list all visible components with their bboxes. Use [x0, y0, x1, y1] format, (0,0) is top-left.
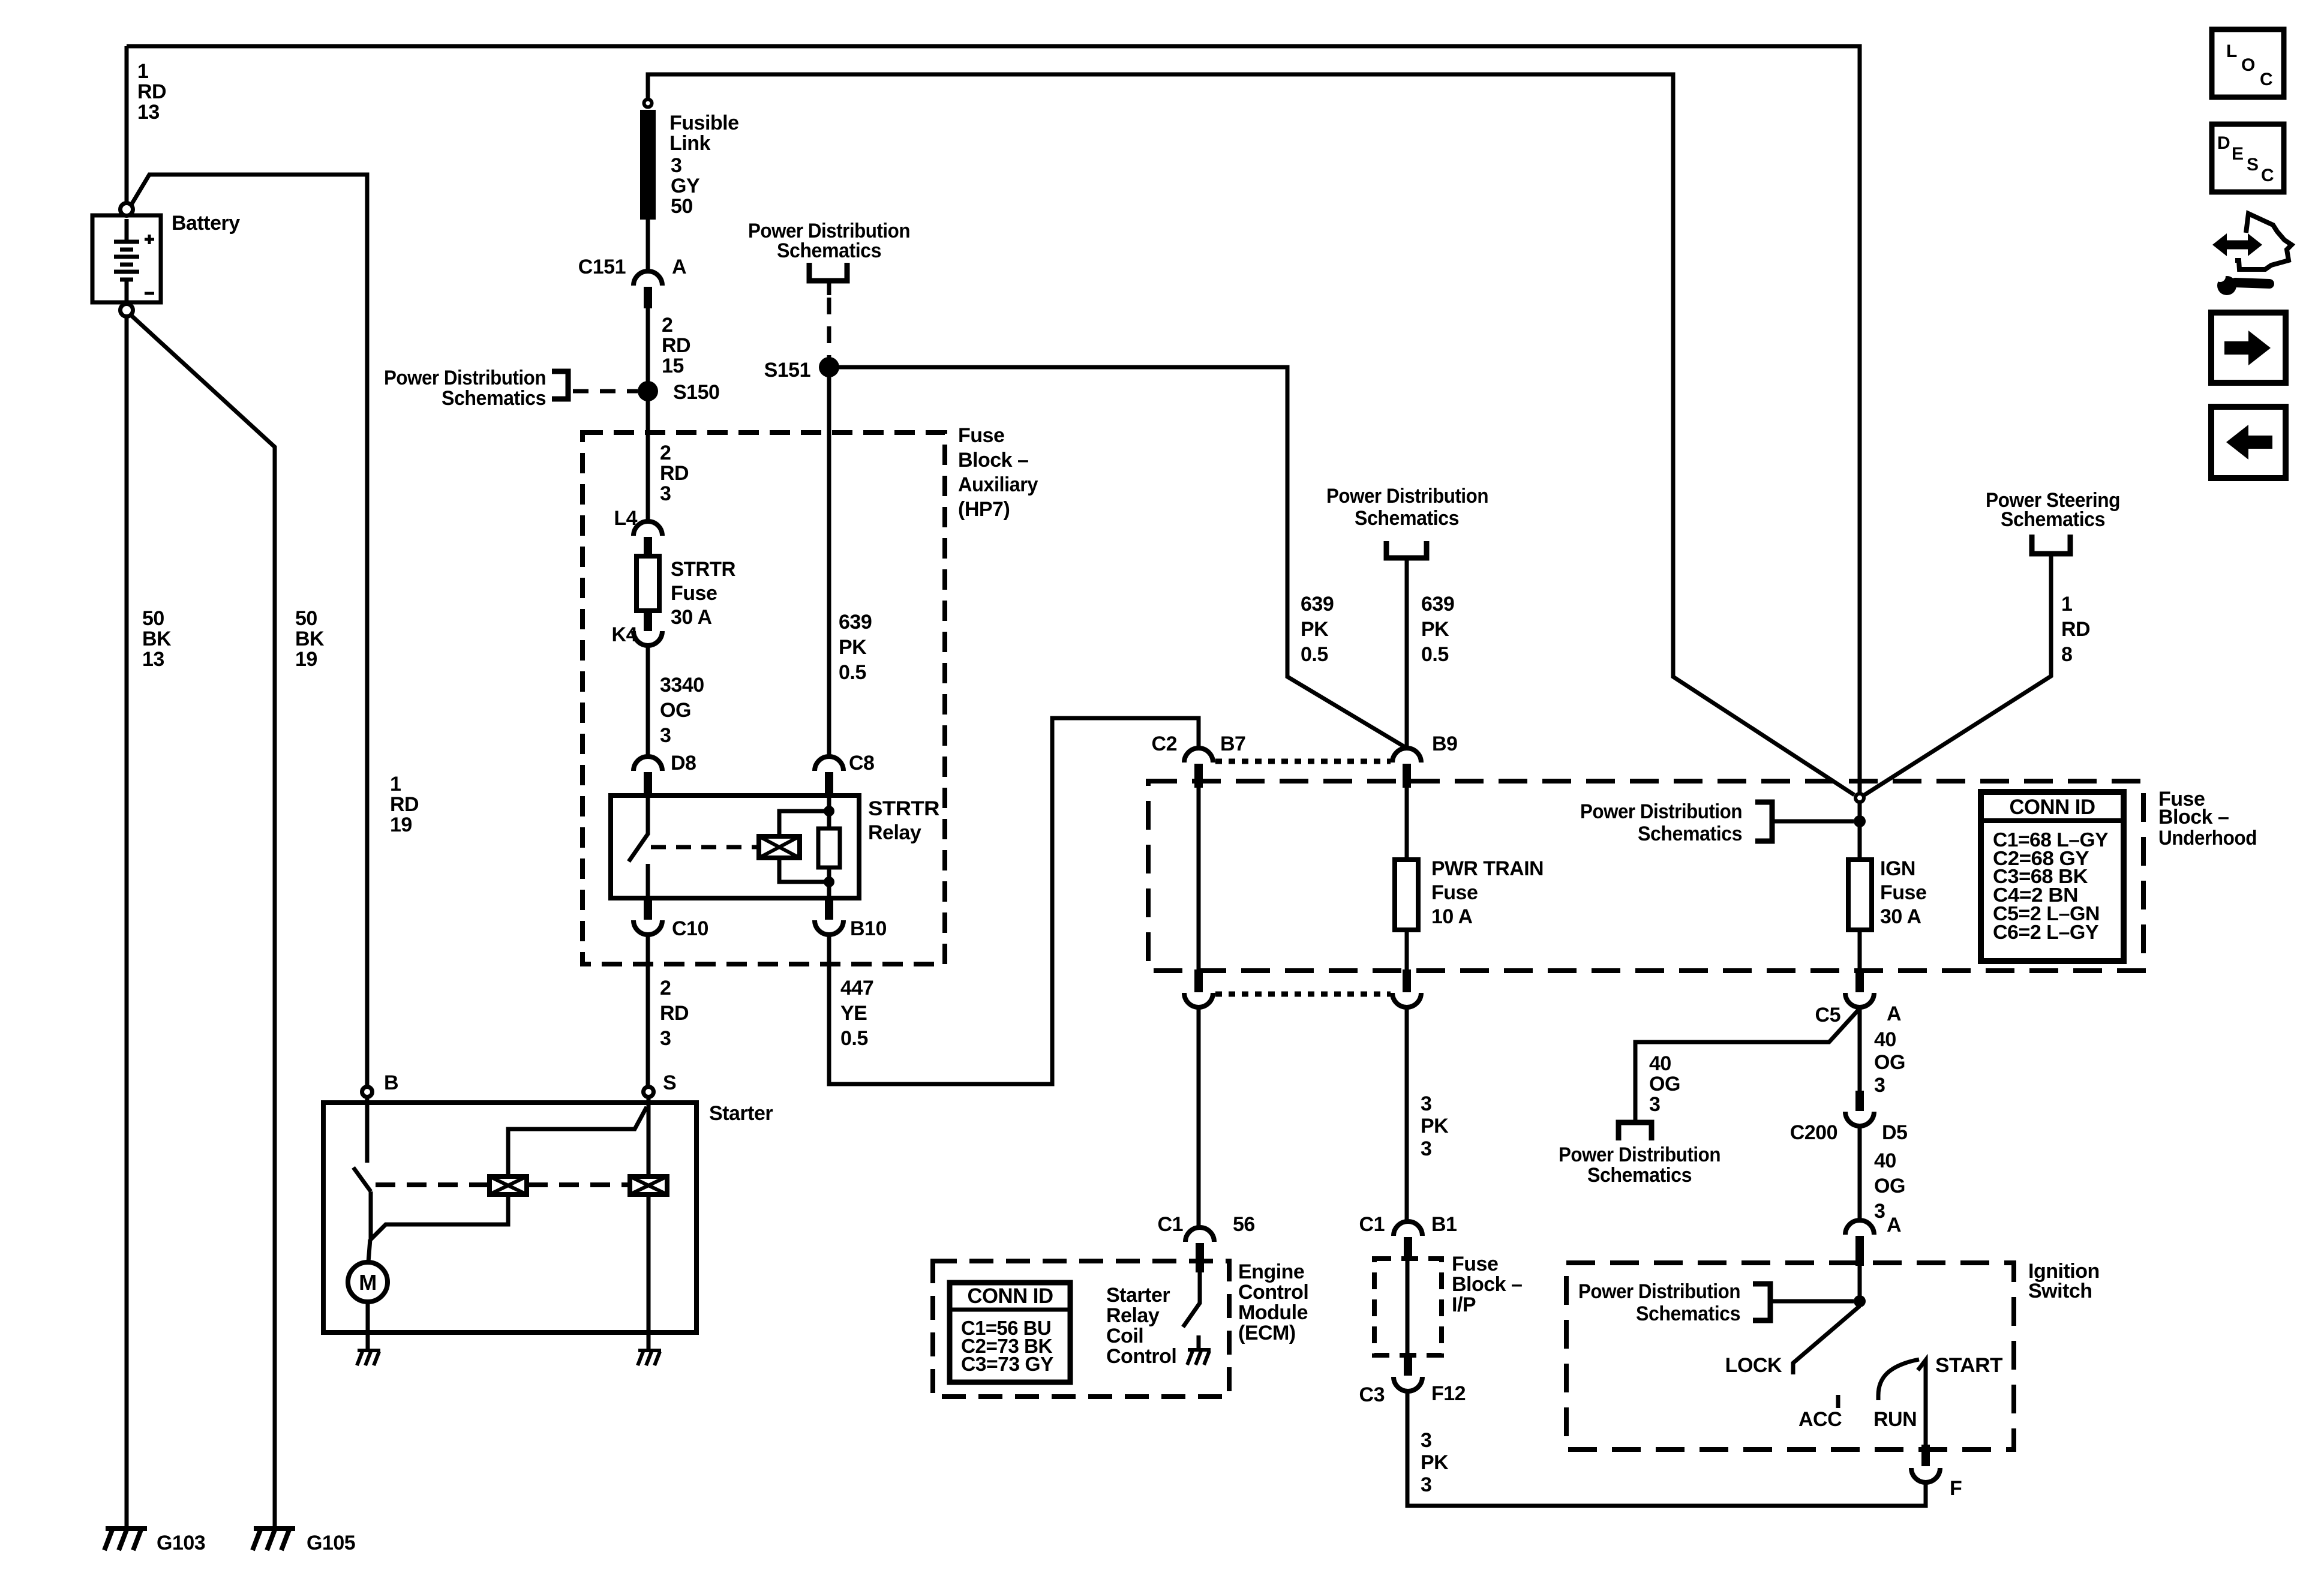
svg-text:15: 15: [662, 355, 684, 377]
connector C1 ECM: [1185, 1227, 1214, 1272]
fuse block IP dashed box: [1374, 1259, 1442, 1355]
svg-text:1: 1: [390, 773, 401, 795]
svg-text:OG: OG: [660, 699, 691, 722]
svg-text:30 A: 30 A: [1880, 905, 1921, 928]
connector C1 B1: [1394, 1221, 1422, 1260]
svg-text:639: 639: [1421, 593, 1454, 616]
fuse STRTR 30A: [636, 556, 659, 611]
svg-text:C1: C1: [1359, 1213, 1385, 1236]
svg-text:IGN: IGN: [1880, 857, 1915, 880]
svg-text:F: F: [1950, 1477, 1962, 1500]
svg-text:B: B: [384, 1071, 398, 1094]
wire 50 BK 13 battery negative to G103: [125, 317, 129, 1529]
svg-text:A: A: [672, 256, 686, 278]
svg-text:OG: OG: [1649, 1073, 1680, 1095]
connector A ignition switch: [1845, 1220, 1874, 1266]
battery plates: [114, 219, 139, 302]
svg-text:Power Distribution: Power Distribution: [1559, 1143, 1721, 1166]
svg-text:C8: C8: [849, 752, 874, 775]
fuse block auxiliary HP7 dashed box: [582, 433, 945, 964]
icon jump wrench: [2217, 276, 2236, 295]
svg-text:A: A: [1887, 1214, 1901, 1236]
wire 40 OG 3 C5 to C200: [1858, 1007, 1862, 1092]
svg-text:STRTR: STRTR: [868, 797, 939, 820]
CONN ID table ECM: [950, 1283, 1070, 1382]
svg-text:56: 56: [1233, 1213, 1255, 1236]
svg-text:Fuse: Fuse: [1431, 881, 1478, 904]
svg-text:PK: PK: [1421, 1451, 1449, 1474]
svg-text:S150: S150: [673, 381, 719, 404]
starter terminal B: [362, 1087, 373, 1097]
svg-text:D: D: [2217, 133, 2230, 153]
svg-text:O: O: [2241, 55, 2255, 75]
wire 447 YE 0.5 B10 to fuse block underhood C2 B7: [829, 718, 1199, 1084]
wire 1 RD 19 battery positive to starter B: [131, 175, 367, 1085]
ignition switch RUN arc: [1878, 1359, 1919, 1400]
goes-to bracket for power distribution schematics above S151: [809, 263, 847, 281]
starter box: [323, 1103, 696, 1332]
goes-to bracket for power distribution schematics left of S150: [552, 371, 568, 399]
icon box right arrow: [2211, 313, 2286, 383]
battery positive terminal: [121, 203, 133, 216]
svg-text:OG: OG: [1874, 1051, 1905, 1074]
ground G103: [104, 1529, 147, 1550]
ECM dashed box: [933, 1261, 1229, 1397]
svg-text:YE: YE: [840, 1002, 867, 1025]
svg-text:B7: B7: [1220, 733, 1245, 755]
starter motor M: [348, 1262, 388, 1302]
svg-text:Control: Control: [1238, 1281, 1308, 1304]
svg-text:13: 13: [137, 101, 160, 124]
connector C10: [633, 898, 662, 935]
battery box: [92, 215, 161, 302]
wire fusible link top line 2 RD: [648, 74, 1854, 795]
svg-text:Power Distribution: Power Distribution: [384, 367, 546, 389]
svg-text:RD: RD: [390, 793, 419, 816]
svg-text:Schematics: Schematics: [442, 387, 546, 410]
svg-text:CONN ID: CONN ID: [968, 1284, 1053, 1308]
svg-text:639: 639: [1301, 593, 1334, 616]
svg-text:RD: RD: [660, 1002, 689, 1025]
wire C2 B7 to C3 E6 inside underhood block: [1197, 783, 1201, 971]
svg-text:Fuse: Fuse: [1452, 1253, 1498, 1275]
svg-text:13: 13: [142, 648, 164, 671]
splice S150: [638, 381, 658, 401]
relay coil: [759, 836, 800, 858]
svg-text:Schematics: Schematics: [1587, 1164, 1692, 1187]
svg-text:2: 2: [662, 314, 672, 337]
svg-text:L4: L4: [614, 507, 637, 530]
dotted pin line B7 to B9: [1215, 759, 1391, 764]
svg-text:Block –: Block –: [958, 449, 1028, 472]
svg-text:L: L: [2226, 41, 2237, 61]
wire 447 YE 0.35 E6 to ECM C1: [1197, 1007, 1201, 1227]
svg-text:3: 3: [1421, 1473, 1431, 1496]
connector C200 D5: [1845, 1091, 1874, 1126]
junction terminal circle at IGN feed: [1855, 794, 1864, 802]
CONN ID table underhood: [1981, 792, 2124, 961]
goes-to bracket power distribution below 40 OG 3 branch: [1619, 1122, 1652, 1140]
svg-text:3: 3: [1874, 1200, 1885, 1223]
svg-text:Block –: Block –: [1452, 1273, 1522, 1296]
svg-text:19: 19: [295, 648, 317, 671]
wire fusible link to C151: [646, 220, 650, 271]
wire IGN fuse to C5: [1858, 930, 1862, 971]
wire 2 RD 3 C10 to starter S: [646, 935, 650, 1085]
svg-text:Module: Module: [1238, 1301, 1308, 1324]
svg-text:K4: K4: [612, 623, 638, 646]
connector B10: [815, 898, 843, 935]
svg-text:C6=2 L–GY: C6=2 L–GY: [1993, 921, 2099, 943]
svg-text:D8: D8: [671, 752, 696, 775]
wire 2 RD 15 C151 to S150: [646, 308, 650, 382]
svg-text:PK: PK: [1421, 1115, 1449, 1137]
svg-text:3: 3: [660, 724, 671, 747]
svg-text:PK: PK: [1301, 618, 1329, 641]
starter motor feed tap: [371, 1194, 508, 1239]
junction dot ignition feed: [1854, 1295, 1866, 1307]
svg-text:40: 40: [1874, 1149, 1896, 1172]
svg-text:Schematics: Schematics: [777, 239, 881, 262]
svg-text:Starter: Starter: [709, 1102, 773, 1125]
ECM driver switch: [1183, 1272, 1200, 1350]
wire battery positive feed top line 1 RD 13: [127, 46, 1860, 793]
connector L4: [633, 521, 662, 557]
svg-text:0.5: 0.5: [1301, 643, 1328, 666]
connector C5: [1845, 969, 1874, 1007]
starter solenoid actuation dashed line: [376, 1182, 629, 1187]
svg-text:GY: GY: [671, 175, 700, 197]
wire 40 OG 3 branch C5 to power distribution: [1635, 1008, 1860, 1122]
svg-text:C10: C10: [672, 917, 708, 940]
svg-text:LOCK: LOCK: [1725, 1354, 1782, 1377]
svg-text:S: S: [663, 1071, 676, 1094]
svg-text:B9: B9: [1432, 733, 1457, 755]
starter motor wire: [368, 1231, 371, 1262]
svg-text:PWR TRAIN: PWR TRAIN: [1431, 857, 1544, 880]
wire 3 PK 3 F9 to fuse block IP B1: [1405, 1007, 1409, 1221]
svg-text:19: 19: [390, 813, 412, 836]
svg-text:C200: C200: [1790, 1121, 1837, 1144]
svg-text:RD: RD: [662, 334, 690, 357]
svg-text:Fusible: Fusible: [669, 112, 739, 134]
svg-text:S: S: [2247, 155, 2259, 175]
svg-text:C3=73 GY: C3=73 GY: [961, 1353, 1053, 1375]
icon jump outline: [2235, 214, 2292, 269]
svg-text:C151: C151: [578, 256, 626, 278]
svg-text:C2: C2: [1152, 733, 1177, 755]
svg-text:2: 2: [660, 442, 671, 464]
svg-text:3: 3: [1649, 1093, 1660, 1116]
svg-text:Relay: Relay: [868, 821, 921, 844]
svg-text:S151: S151: [764, 359, 810, 382]
ECM ground: [1187, 1350, 1211, 1365]
svg-text:ACC: ACC: [1798, 1408, 1842, 1431]
battery negative terminal: [121, 304, 133, 317]
icon box LOC: [2212, 29, 2284, 97]
svg-text:30 A: 30 A: [671, 606, 712, 629]
svg-text:0.5: 0.5: [840, 1027, 868, 1050]
svg-text:8: 8: [2061, 643, 2072, 666]
connector B9: [1392, 748, 1421, 788]
dotted pin line E6 to F9: [1215, 992, 1391, 997]
wire S151 branch horizontal to B9: [838, 367, 1407, 748]
connector C3 F12: [1394, 1355, 1422, 1391]
starter motor ground wire: [368, 1098, 648, 1350]
pointer bracket power distribution schematics in ignition switch: [1753, 1284, 1770, 1320]
svg-text:PK: PK: [1421, 618, 1449, 641]
relay box STRTR Relay: [611, 795, 859, 898]
starter solenoid coil 1: [490, 1176, 527, 1194]
svg-text:Auxiliary: Auxiliary: [958, 473, 1038, 496]
svg-text:0.5: 0.5: [1421, 643, 1449, 666]
wire 40 OG 3 C200 to A: [1858, 1126, 1862, 1220]
svg-text:C: C: [2260, 70, 2272, 89]
svg-text:B10: B10: [850, 917, 887, 940]
starter solenoid coil 2: [630, 1176, 667, 1194]
connector C3 E6: [1184, 969, 1213, 1007]
svg-text:RD: RD: [2061, 618, 2090, 641]
svg-text:447: 447: [840, 977, 873, 999]
dashed lead from power distribution bracket to S151: [827, 282, 831, 295]
svg-text:Schematics: Schematics: [1636, 1302, 1740, 1325]
icon box left arrow: [2211, 407, 2286, 478]
svg-text:3: 3: [1421, 1429, 1431, 1452]
wire 3340 OG 3 K4 to D8: [646, 646, 650, 757]
connector C151 pin A: [633, 271, 662, 308]
wire B1 to F12 through fuse block IP: [1406, 1260, 1410, 1355]
svg-text:(HP7): (HP7): [958, 498, 1010, 521]
svg-text:Battery: Battery: [172, 212, 240, 235]
wire PWR TRAIN fuse to F9: [1405, 930, 1409, 971]
starter ground right: [638, 1350, 661, 1365]
svg-text:50: 50: [295, 607, 317, 630]
svg-text:Coil: Coil: [1106, 1325, 1143, 1347]
battery polarity marks: [145, 235, 154, 244]
svg-text:G105: G105: [307, 1532, 355, 1554]
connector D8: [633, 757, 662, 795]
relay coil wiring: [779, 795, 829, 898]
svg-text:Schematics: Schematics: [1638, 822, 1742, 845]
svg-text:C1: C1: [1158, 1213, 1183, 1236]
svg-text:Link: Link: [669, 132, 710, 155]
pointer bracket power distribution schematics at IGN: [1755, 802, 1772, 841]
svg-text:Underhood: Underhood: [2158, 827, 2257, 849]
lead from power distribution bracket to IGN wire: [1772, 819, 1854, 824]
svg-text:C5: C5: [1815, 1004, 1840, 1026]
connector F: [1911, 1445, 1940, 1482]
svg-text:OG: OG: [1874, 1175, 1905, 1197]
svg-text:3: 3: [660, 1027, 671, 1050]
svg-text:RUN: RUN: [1873, 1408, 1917, 1431]
wire 3 PK 3 F12 to ignition switch F: [1407, 1391, 1926, 1506]
svg-text:C: C: [2261, 166, 2274, 185]
wire B9 to PWR TRAIN fuse: [1405, 783, 1409, 860]
starter coil1 feed wire from S: [508, 1107, 647, 1176]
svg-text:BK: BK: [295, 628, 325, 650]
svg-text:PK: PK: [839, 636, 867, 659]
svg-text:B1: B1: [1431, 1213, 1457, 1236]
svg-text:Power Distribution: Power Distribution: [1580, 800, 1742, 823]
svg-text:M: M: [359, 1270, 377, 1295]
wire junction to IGN fuse: [1858, 803, 1862, 860]
junction dot power distribution tap: [1854, 815, 1866, 827]
lead from power distribution bracket to ignition feed: [1770, 1299, 1854, 1304]
connector C2 B7: [1184, 748, 1213, 788]
ground G105: [253, 1529, 295, 1550]
fuse IGN 30A: [1848, 860, 1872, 930]
svg-text:Starter: Starter: [1106, 1284, 1170, 1307]
wire battery positive riser: [125, 46, 129, 203]
wire 2 RD 3 S150 to L4: [646, 400, 650, 521]
icon box DESC: [2212, 124, 2284, 192]
svg-text:G103: G103: [157, 1532, 205, 1554]
wire 50 BK 19 battery negative to G105: [131, 316, 275, 1529]
svg-text:A: A: [1887, 1002, 1901, 1025]
ignition switch START contact: [1918, 1360, 1926, 1445]
wire A into ignition switch: [1858, 1266, 1862, 1296]
svg-text:RD: RD: [660, 462, 689, 485]
svg-text:BK: BK: [142, 628, 172, 650]
svg-text:Fuse: Fuse: [958, 424, 1004, 447]
svg-text:F12: F12: [1431, 1382, 1466, 1405]
icon jump double arrow: [2223, 241, 2251, 250]
svg-text:3: 3: [1874, 1074, 1885, 1097]
ignition switch dashed box: [1566, 1263, 2014, 1449]
svg-text:Control: Control: [1106, 1345, 1176, 1368]
icon LOC letters: [2226, 41, 2272, 89]
svg-text:639: 639: [839, 611, 872, 634]
svg-text:START: START: [1935, 1354, 2003, 1377]
relay actuation dashed line: [651, 845, 759, 849]
svg-text:STRTR: STRTR: [671, 558, 735, 581]
fuse block underhood dashed box: [1148, 781, 2143, 971]
icon DESC letters: [2217, 133, 2274, 185]
svg-text:D5: D5: [1882, 1121, 1907, 1144]
svg-text:3: 3: [1421, 1092, 1431, 1115]
relay switch from D8: [629, 795, 648, 898]
svg-text:3: 3: [671, 154, 681, 177]
fusible link terminal circle: [644, 100, 652, 107]
svg-text:0.5: 0.5: [839, 661, 866, 684]
svg-text:Power Distribution: Power Distribution: [1578, 1280, 1740, 1303]
starter ground left: [357, 1350, 380, 1365]
goes-to bracket power steering schematics: [2032, 535, 2070, 554]
svg-text:3340: 3340: [660, 674, 704, 697]
svg-text:40: 40: [1874, 1028, 1896, 1051]
splice S151: [819, 357, 839, 377]
svg-text:1: 1: [137, 60, 148, 83]
svg-text:50: 50: [142, 607, 164, 630]
fusible link element 3 GY 50: [640, 110, 656, 220]
wire power distribution bracket to B9: [1405, 559, 1409, 748]
connector C8: [815, 757, 843, 795]
svg-text:I/P: I/P: [1452, 1293, 1476, 1316]
fuse PWR TRAIN 10A: [1395, 860, 1418, 930]
svg-text:10 A: 10 A: [1431, 905, 1473, 928]
svg-text:40: 40: [1649, 1052, 1671, 1075]
svg-text:RD: RD: [137, 80, 166, 103]
svg-text:1: 1: [2061, 593, 2072, 616]
wire 1 RD 8 power steering to junction: [1864, 567, 2051, 795]
svg-text:(ECM): (ECM): [1238, 1322, 1296, 1344]
svg-text:Engine: Engine: [1238, 1260, 1304, 1283]
dashed lead from power distribution bracket to S150: [573, 389, 638, 394]
ignition switch ACC contact tick: [1836, 1395, 1840, 1408]
svg-text:Switch: Switch: [2028, 1280, 2092, 1302]
svg-text:3: 3: [1421, 1137, 1431, 1160]
svg-text:CONN ID: CONN ID: [2010, 795, 2095, 819]
svg-text:2: 2: [660, 977, 671, 999]
svg-text:Relay: Relay: [1106, 1304, 1160, 1327]
svg-text:Block –: Block –: [2158, 806, 2229, 828]
svg-text:3: 3: [660, 482, 671, 505]
svg-text:Fuse: Fuse: [671, 582, 717, 605]
svg-text:50: 50: [671, 195, 693, 218]
goes-to bracket above B9: [1386, 541, 1427, 558]
svg-text:Fuse: Fuse: [1880, 881, 1926, 904]
connector F9: [1392, 969, 1421, 1007]
connector K4: [633, 631, 662, 646]
svg-text:Power Distribution: Power Distribution: [1326, 485, 1488, 508]
relay resistor: [818, 828, 840, 867]
svg-text:E: E: [2232, 144, 2244, 164]
wire 639 PK 0.5 S151 to C8: [827, 376, 831, 757]
svg-text:Schematics: Schematics: [1355, 507, 1459, 530]
svg-text:C3: C3: [1359, 1383, 1385, 1406]
svg-text:Schematics: Schematics: [2001, 508, 2105, 531]
starter terminal S: [644, 1087, 654, 1097]
ignition switch LOCK blade: [1793, 1306, 1860, 1374]
starter switch blade: [353, 1098, 371, 1231]
